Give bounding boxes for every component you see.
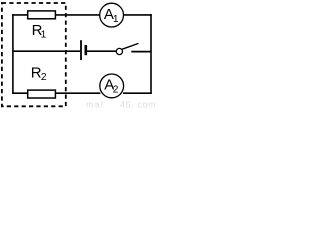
- svg-text:1: 1: [113, 14, 119, 25]
- svg-text:1: 1: [41, 29, 47, 40]
- svg-text:2: 2: [41, 72, 47, 83]
- svg-text:45. com: 45. com: [120, 100, 156, 110]
- svg-text:mat: mat: [86, 100, 105, 110]
- svg-text:2: 2: [113, 84, 119, 95]
